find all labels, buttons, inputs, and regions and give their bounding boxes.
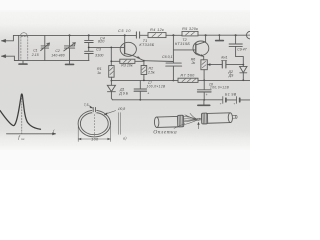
svg-text:100,0×12В: 100,0×12В xyxy=(210,86,230,90)
resistor R5 xyxy=(182,31,198,36)
loop antenna drawing xyxy=(78,107,110,136)
resistor R2 xyxy=(141,60,147,81)
svg-text:R7 560: R7 560 xyxy=(180,74,194,78)
svg-text:+: + xyxy=(220,101,222,105)
transistor T2 xyxy=(193,35,209,60)
transistor T1 xyxy=(120,35,144,60)
diode D2 xyxy=(240,65,247,81)
cable braid ferrule left xyxy=(177,115,183,127)
ground (under C2) xyxy=(66,61,74,65)
svg-text:R5 320к: R5 320к xyxy=(182,27,198,31)
wire antenna input top xyxy=(1,35,18,42)
wire emitter node to C6 xyxy=(144,60,174,63)
label R3 xyxy=(121,64,133,68)
label T2 xyxy=(175,38,190,46)
cable braid ferrule right xyxy=(201,113,207,124)
label C9 xyxy=(237,47,248,51)
svg-text:100,0×12В: 100,0×12В xyxy=(146,85,166,89)
wire T1 base xyxy=(88,47,124,66)
dimension 100 xyxy=(78,127,110,142)
label C7 xyxy=(146,81,166,88)
svg-text:2,5к: 2,5к xyxy=(147,70,155,74)
svg-text:140-480: 140-480 xyxy=(51,54,65,58)
resistor R6 (trimmer) xyxy=(201,60,211,81)
label C1 xyxy=(31,49,39,57)
coil L1 xyxy=(19,33,27,61)
leader line right of loop xyxy=(118,113,120,135)
resistor R7 xyxy=(178,78,198,82)
svg-text:R4 12к: R4 12к xyxy=(150,28,164,32)
label f axis xyxy=(53,128,55,133)
svg-text:С6 0,1: С6 0,1 xyxy=(162,55,173,59)
button Kn1 xyxy=(211,60,243,68)
label T1 xyxy=(139,39,154,47)
earphone jack X1 xyxy=(246,31,254,39)
cable centre joint xyxy=(197,118,202,121)
arrow to joint xyxy=(197,122,199,128)
svg-text:1к: 1к xyxy=(97,71,101,75)
wire T2 base xyxy=(173,49,195,51)
label C5 xyxy=(118,29,131,33)
svg-text:3100: 3100 xyxy=(95,54,104,58)
label D2 xyxy=(227,70,233,78)
capacitor C8 (electrolytic) xyxy=(197,80,211,100)
label R7 xyxy=(180,74,194,78)
label R2 xyxy=(147,67,155,75)
cable left cylinder xyxy=(154,116,177,127)
label C3 xyxy=(95,48,104,58)
wire lower rail xyxy=(112,99,250,101)
dimension diameter 0,8 xyxy=(104,107,125,115)
capacitor C4 xyxy=(85,35,94,47)
ground (top rail) xyxy=(216,35,224,40)
dimension 7,5 xyxy=(84,103,93,108)
label Kn1 xyxy=(221,56,227,60)
cable braid strands xyxy=(184,113,198,124)
resistor R3 xyxy=(110,59,143,63)
ground (bottom) xyxy=(198,100,210,105)
svg-text:Кн1: Кн1 xyxy=(221,56,227,60)
ground (tuned circuit) xyxy=(19,61,27,65)
svg-text:R3 10к: R3 10к xyxy=(121,64,133,68)
resistor R4 xyxy=(148,33,166,38)
capacitor C7 (electrolytic) xyxy=(134,81,149,100)
svg-text:2к: 2к xyxy=(190,61,195,65)
capacitor C1 xyxy=(41,35,50,60)
label C6 xyxy=(162,55,173,59)
resistor R1 xyxy=(109,66,114,81)
svg-text:100: 100 xyxy=(91,138,99,142)
label Opletka xyxy=(153,124,184,136)
node top rail junctions xyxy=(69,34,237,36)
svg-text:820: 820 xyxy=(98,39,105,43)
svg-text:+: + xyxy=(147,91,149,95)
svg-text:С2: С2 xyxy=(55,49,59,53)
capacitor C6 xyxy=(166,35,182,80)
label B1 xyxy=(225,92,237,96)
svg-text:Д9Б: Д9Б xyxy=(118,92,129,96)
svg-text:2-15: 2-15 xyxy=(31,53,39,57)
battery B1 xyxy=(220,97,240,106)
diode D1 xyxy=(107,81,115,100)
label C2 xyxy=(51,49,65,57)
svg-text:КТ315Б: КТ315Б xyxy=(175,42,190,46)
cable drawing xyxy=(154,112,237,130)
capacitor C9 xyxy=(229,35,244,65)
svg-text:7,5: 7,5 xyxy=(84,103,89,107)
label C8 xyxy=(209,82,230,89)
label C4 xyxy=(98,36,105,43)
svg-text:∅0,8: ∅0,8 xyxy=(117,107,125,111)
wire top rail xyxy=(19,34,246,36)
svg-text:КТ315Б: КТ315Б xyxy=(139,43,154,47)
graph resonance curve xyxy=(0,94,56,135)
wire ground rail xyxy=(111,79,251,81)
wire mid rail xyxy=(14,60,89,62)
ferrite rod (dashed) xyxy=(21,36,28,60)
label R4 xyxy=(150,28,164,32)
cable right cylinder xyxy=(207,113,237,124)
svg-text:пч: пч xyxy=(21,137,25,141)
label D1 xyxy=(118,88,129,96)
svg-text:С5 10: С5 10 xyxy=(118,29,131,33)
capacitor C3 xyxy=(85,47,94,60)
label f-pch xyxy=(18,136,24,141)
svg-text:Д9: Д9 xyxy=(228,74,234,78)
label R5 xyxy=(182,27,198,31)
label R6 xyxy=(190,58,195,65)
svg-text:Оплетка: Оплетка xyxy=(153,130,177,136)
svg-text:С9 47: С9 47 xyxy=(237,47,248,51)
capacitor C5 xyxy=(136,32,139,38)
wire antenna input bottom xyxy=(1,55,18,61)
capacitor C2 (variable) xyxy=(64,35,75,60)
label R1 xyxy=(97,67,102,75)
svg-text:+: + xyxy=(234,101,236,105)
svg-text:Б1 9В: Б1 9В xyxy=(225,92,237,96)
svg-text:+: + xyxy=(206,93,208,97)
